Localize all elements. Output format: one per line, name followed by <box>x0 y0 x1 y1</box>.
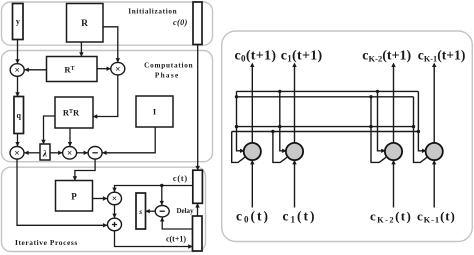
wire RT to M2 <box>97 67 111 71</box>
node dot rail4 x N2 bottom hook <box>271 130 274 133</box>
svg-text:Delay: Delay <box>176 207 194 215</box>
svg-text:c0(t): c0(t) <box>236 208 270 224</box>
svg-text:q: q <box>16 111 21 120</box>
label Computation Phase <box>144 62 193 80</box>
register box c(0) <box>193 2 202 45</box>
multiplier M5 (P times c(t)) <box>108 192 122 205</box>
svg-text:P: P <box>71 192 77 202</box>
label cK-2(t+1) <box>362 48 411 63</box>
wire cK-2(t) input up into N3 <box>391 160 395 208</box>
wire cK-1(t) input up into N4 <box>432 160 436 208</box>
svg-text:Initialization: Initialization <box>128 7 177 15</box>
svg-text:Phase: Phase <box>155 72 180 80</box>
matrix box RTR <box>55 97 93 128</box>
svg-text:Iterative Process: Iterative Process <box>15 238 78 247</box>
net rail 4 <box>232 131 419 133</box>
wire rail4 corner to N1 bottom input <box>232 132 247 163</box>
label c0(t+1) <box>235 48 277 63</box>
matrix box R <box>67 4 104 43</box>
net rail 3 <box>237 126 414 128</box>
multiplier M3 (q times lambda) <box>10 147 24 160</box>
node dot rail3 x N2 side hook <box>278 125 281 128</box>
node junction on c(t) wire <box>160 184 163 187</box>
wire RTR to lambda <box>41 116 55 144</box>
node dot rail1 x N2 side hook <box>278 90 281 93</box>
label c1(t) <box>283 208 317 224</box>
wire rail1 corner to N1 side input <box>237 91 245 153</box>
wire N4 output up <box>432 63 436 143</box>
svg-text:R: R <box>81 19 88 29</box>
vector box q <box>14 97 24 134</box>
label cK-1(t+1) <box>418 47 466 63</box>
neuron N3 <box>385 143 402 160</box>
wire N3 output up <box>391 63 395 143</box>
svg-text:λ: λ <box>42 150 47 160</box>
wire c1(t) input up into N2 <box>292 160 296 208</box>
label c(t+1) <box>166 235 186 244</box>
svg-text:c1(t+1): c1(t+1) <box>281 48 323 63</box>
multiplier M2 (RT times R) <box>111 62 125 75</box>
svg-text:Computation: Computation <box>144 62 193 70</box>
node dot rail3 x N4 bottom hook <box>412 125 415 128</box>
wire I to S1 <box>102 127 155 155</box>
wire S1 to P <box>73 159 95 181</box>
label c(t) <box>173 174 188 183</box>
subtractor S1 (I minus RTR/lambda) <box>88 147 102 160</box>
label Iterative Process <box>15 238 78 247</box>
net rail 2 <box>237 96 414 98</box>
label c1(t+1) <box>281 48 323 63</box>
section outline: Initialization phase <box>2 2 213 45</box>
adder A1 <box>108 218 122 231</box>
wire N1 output up <box>250 63 254 143</box>
neuron N1 <box>244 143 261 160</box>
wire c0(t) input up into N1 <box>250 160 254 208</box>
wire lambda to M4 <box>50 151 63 155</box>
neuron N4 <box>426 143 443 160</box>
wire N2 output up <box>292 63 296 143</box>
svg-text:c(t): c(t) <box>173 174 188 183</box>
subtractor S2 (c(t) minus c(t+1)) <box>155 206 169 217</box>
wire q to M3 <box>15 134 19 147</box>
wire S2 to s <box>145 209 155 213</box>
node dot rail2 x N3 bottom hook <box>369 95 372 98</box>
section outline: Computation phase <box>2 51 213 162</box>
wire c(t) to M5 <box>112 186 193 193</box>
wire rail1 tap to N3 side input <box>378 91 386 153</box>
node dot rail3 x VL1 <box>235 125 238 128</box>
svg-text:s: s <box>138 207 142 216</box>
scalar box lambda <box>40 144 50 160</box>
wire rail4 tap to N2 bottom input <box>273 132 289 163</box>
wire y to M1 <box>15 40 19 64</box>
node dot rail1 x N3 side hook <box>376 90 379 93</box>
wire rail1 corner to N4 side input <box>418 91 426 153</box>
section outline: Iterative process <box>2 167 206 251</box>
matrix box I <box>136 96 173 127</box>
threshold box s <box>136 193 146 229</box>
wire rail2 tap to N3 bottom input <box>371 97 388 163</box>
svg-text:c0(t+1): c0(t+1) <box>235 48 277 63</box>
wire R to M2 <box>103 27 120 63</box>
node dot rail4 x N4 side hook <box>417 130 420 133</box>
wire RTR to M4 <box>68 128 72 147</box>
wire rail2 corner to N4 bottom input <box>414 97 429 163</box>
label Delay <box>176 207 194 215</box>
wire R to RT <box>79 42 83 57</box>
wire M4 to S1 <box>77 151 89 155</box>
multiplier M4 (RTR times lambda) <box>63 147 77 160</box>
wire M3 to A1 <box>17 159 108 227</box>
wire c(t+1) delay to c(t) <box>195 203 199 216</box>
matrix box RT <box>47 57 98 82</box>
wire M2 to RTR <box>93 75 118 119</box>
register box c(t) <box>193 170 203 203</box>
svg-text:×: × <box>67 149 72 159</box>
wire P to M5 <box>93 196 108 200</box>
node dot rail3 x N3 bottom hook <box>369 125 372 128</box>
matrix box P <box>56 181 93 212</box>
wire rail1 tap to N2 side input <box>280 91 287 153</box>
wire c(t+1) to S2 <box>160 217 193 229</box>
svg-text:c(t+1): c(t+1) <box>166 235 186 244</box>
wire M5 to A1 <box>112 205 116 218</box>
vector box y <box>13 4 24 40</box>
svg-text:×: × <box>14 66 19 76</box>
register box c(t+1) <box>193 216 203 251</box>
svg-text:×: × <box>115 65 120 75</box>
label c0(t) <box>236 208 270 224</box>
svg-text:y: y <box>16 17 20 26</box>
label c(0) <box>173 18 188 27</box>
svg-text:×: × <box>112 195 117 205</box>
net rail 1 <box>237 90 419 92</box>
neuron N2 <box>286 143 303 160</box>
wire lambda to M3 <box>24 151 40 155</box>
wire RT to M1 <box>24 68 46 72</box>
svg-text:c1(t): c1(t) <box>283 208 317 224</box>
wire c(0) to c(t) <box>196 45 200 171</box>
svg-text:×: × <box>14 149 19 159</box>
wire A1 to c(t+1) <box>115 231 193 249</box>
label Initialization <box>128 7 177 15</box>
section outline: right network panel <box>222 31 473 242</box>
wire c(t) branch to S2 <box>160 186 164 206</box>
label cK-2(t) <box>370 208 412 224</box>
node dot rail2 x VL1 <box>235 95 238 98</box>
multiplier M1 (y times RT path) <box>10 64 24 77</box>
label cK-1(t) <box>417 208 456 224</box>
svg-text:c(0): c(0) <box>173 18 188 27</box>
wire M1 to q <box>15 76 19 96</box>
